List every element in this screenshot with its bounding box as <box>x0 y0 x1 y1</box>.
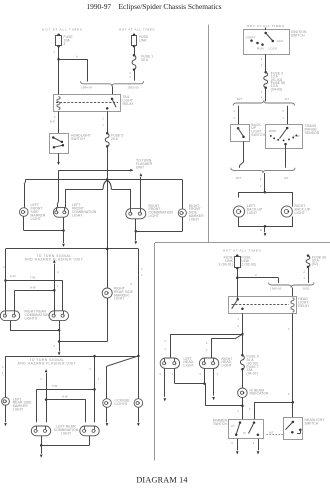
svg-text:LIGHT: LIGHT <box>295 211 305 215</box>
svg-text:SENSOR: SENSOR <box>305 131 320 135</box>
svg-text:PARK: PARK <box>269 129 277 133</box>
svg-text:A/T: A/T <box>285 97 290 101</box>
svg-text:HOT AT ALL TIMES: HOT AT ALL TIMES <box>223 248 261 252</box>
svg-text:LIGHT: LIGHT <box>13 408 23 412</box>
svg-text:1990-91: 1990-91 <box>270 286 282 290</box>
svg-text:1991-93: 1991-93 <box>127 86 139 90</box>
svg-text:H-W: H-W <box>62 395 68 399</box>
svg-text:A: A <box>255 273 257 277</box>
svg-text:UNIT: UNIT <box>136 165 144 169</box>
svg-text:(94-99): (94-99) <box>271 87 282 91</box>
svg-text:HOT AT ALL TIMES: HOT AT ALL TIMES <box>119 28 155 32</box>
svg-text:HI: HI <box>243 432 246 435</box>
svg-text:T/W: T/W <box>30 276 36 280</box>
svg-text:LIGHT: LIGHT <box>61 431 71 435</box>
svg-text:RUN: RUN <box>257 46 264 50</box>
svg-text:LIGHT: LIGHT <box>31 217 41 221</box>
svg-text:HOT AT ALL TIMES: HOT AT ALL TIMES <box>42 28 83 32</box>
svg-text:LIGHT: LIGHT <box>184 364 194 368</box>
svg-text:M/T: M/T <box>236 176 241 180</box>
svg-text:SWITCH: SWITCH <box>291 34 305 38</box>
svg-text:LIGHT: LIGHT <box>72 213 82 217</box>
svg-text:SWITCH: SWITCH <box>71 137 85 141</box>
svg-text:START: START <box>246 36 256 40</box>
svg-text:30 A: 30 A <box>141 58 149 62</box>
svg-text:RELAY: RELAY <box>298 304 310 308</box>
svg-text:LO: LO <box>231 425 235 428</box>
svg-text:K: K <box>131 282 133 286</box>
svg-text:A: A <box>76 55 78 59</box>
svg-text:1992: 1992 <box>303 286 310 290</box>
svg-text:(94-97): (94-97) <box>247 371 258 375</box>
svg-text:SWITCH: SWITCH <box>305 422 319 426</box>
svg-text:LIGHTS: LIGHTS <box>115 402 128 406</box>
svg-text:H-W: H-W <box>30 285 36 289</box>
svg-text:H-W: H-W <box>10 274 16 278</box>
svg-text:DIAGRAM 14: DIAGRAM 14 <box>136 476 187 485</box>
svg-text:LINK: LINK <box>139 39 148 43</box>
svg-text:2 (92-93): 2 (92-93) <box>242 262 256 266</box>
svg-text:1994-97: 1994-97 <box>81 86 93 90</box>
svg-text:LIGHTS: LIGHTS <box>25 317 38 321</box>
svg-text:LIGHT: LIGHT <box>247 211 257 215</box>
svg-text:AND HAZARD FLASHER UNIT: AND HAZARD FLASHER UNIT <box>18 361 77 365</box>
svg-text:ACC: ACC <box>277 39 284 43</box>
svg-text:20 A: 20 A <box>111 137 119 141</box>
svg-text:3 (90-91): 3 (90-91) <box>219 262 233 266</box>
svg-text:LIGHT: LIGHT <box>189 217 199 221</box>
svg-text:B: B <box>260 228 262 232</box>
svg-text:INDICATOR: INDICATOR <box>250 392 269 396</box>
svg-text:LIGHT: LIGHT <box>114 297 124 301</box>
svg-text:LOCK: LOCK <box>269 46 278 50</box>
svg-text:SWITCH: SWITCH <box>213 422 227 426</box>
svg-text:LIGHT: LIGHT <box>149 214 159 218</box>
svg-text:3: 3 <box>64 42 66 46</box>
svg-text:T/W: T/W <box>52 384 58 388</box>
svg-text:A/T: A/T <box>284 176 289 180</box>
svg-text:LIGHT: LIGHT <box>222 364 232 368</box>
svg-text:1990-97 Eclipse/Spider Chas: 1990-97 Eclipse/Spider Chassis Schematic… <box>86 2 221 11</box>
svg-text:B-R: B-R <box>50 120 55 124</box>
svg-text:M/T: M/T <box>269 432 274 435</box>
svg-text:RELAY: RELAY <box>123 102 135 106</box>
svg-text:(92): (92) <box>312 262 318 266</box>
svg-text:M/T: M/T <box>237 97 242 101</box>
svg-text:SWITCH: SWITCH <box>251 133 265 137</box>
